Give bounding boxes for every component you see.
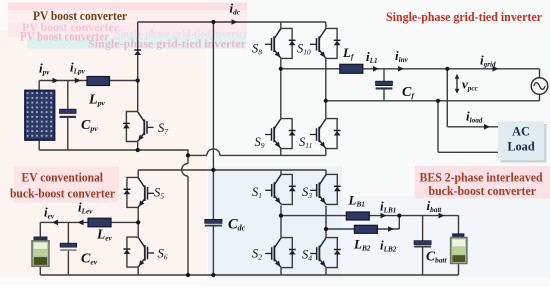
- transistor Q S4: [310, 238, 341, 268]
- transistor Q S3: [310, 174, 341, 204]
- label i_LB2: [380, 238, 397, 254]
- wire negative rail to inverter with hop: [188, 149, 326, 156]
- ghost text artifacts: [8, 3, 248, 51]
- EV title pink background: [14, 167, 119, 203]
- capacitor Cpv: [60, 109, 77, 118]
- label i_Lpv: [70, 60, 86, 76]
- wire BES battery bottom riser: [458, 263, 460, 275]
- BES battery: [451, 234, 467, 264]
- node junction (438,100.8): [436, 99, 440, 103]
- transistor Q S9: [265, 119, 296, 149]
- wire C_pv branch: [67, 81, 69, 151]
- label C_pv: [81, 118, 98, 133]
- capacitor Cf: [376, 81, 393, 89]
- label i_L1: [366, 49, 378, 65]
- capacitor Cev: [60, 243, 76, 251]
- EV battery: [32, 237, 49, 266]
- arrow i_Lpv: [75, 78, 81, 84]
- capacitor Cbatt: [414, 241, 431, 248]
- arrow i_ev: [52, 220, 58, 226]
- node junction (281,215.6): [279, 214, 283, 218]
- node junction (326,229): [324, 227, 328, 231]
- wire inverter left leg: [280, 22, 282, 155]
- svg-text:PV boost converter: PV boost converter: [33, 8, 127, 23]
- arrow i_LB1: [381, 213, 387, 219]
- svg-text:buck-boost converter: buck-boost converter: [10, 187, 115, 201]
- capacitor Cdc: [205, 219, 222, 226]
- label v_pcc: [462, 77, 479, 93]
- label S2: [252, 247, 262, 262]
- wire BES leg 2: [325, 170, 327, 275]
- node junction (213.4,275): [211, 273, 215, 277]
- label i_dc: [230, 1, 241, 17]
- voltage vpcc arrow: [455, 74, 460, 94]
- arrow i_pv: [53, 78, 59, 84]
- transistor Q S10: [310, 28, 341, 58]
- title BES 2-phase interleaved buck-boost converter: [420, 171, 543, 198]
- wire BES phase2 rail: [326, 216, 399, 229]
- wire C_batt branch: [422, 216, 424, 275]
- BES title pink background: [415, 166, 550, 199]
- svg-text:buck-boost converter: buck-boost converter: [429, 184, 537, 198]
- label i_grid: [480, 53, 496, 69]
- label i_batt: [427, 198, 443, 214]
- wire i_load branch: [447, 69, 498, 127]
- label C_f: [402, 85, 415, 100]
- node junction (399.3,215.6): [397, 214, 401, 218]
- wire DC link vertical: [212, 22, 214, 275]
- transistor Q S11: [310, 119, 341, 149]
- wire C_f branch: [383, 69, 385, 101]
- transistor Q S2: [265, 238, 296, 268]
- svg-text:EV conventional: EV conventional: [22, 171, 104, 185]
- wire PV top rail: [39, 81, 138, 92]
- arrow i_L1: [373, 66, 379, 72]
- label S8: [252, 42, 262, 57]
- label S1: [252, 185, 262, 200]
- title Single-phase grid-tied inverter: [386, 9, 542, 24]
- label L_f: [342, 45, 354, 61]
- inductor LB1: [346, 212, 369, 220]
- transistor Q S1: [265, 174, 296, 204]
- inductor Lpv: [87, 77, 110, 86]
- arrow i_load: [484, 124, 490, 130]
- wire inverter output: [281, 69, 540, 78]
- wire EV mid rail: [40, 222, 138, 237]
- wire load return branch: [438, 101, 498, 153]
- node junction (325.8,100.8): [324, 99, 328, 103]
- AC load shadow: [501, 124, 547, 163]
- node junction (138.2,222.4): [136, 220, 140, 224]
- label S5: [154, 186, 164, 201]
- label L_B2: [353, 237, 371, 253]
- wire BES leg 1: [280, 170, 282, 275]
- wire top DC bus: [138, 21, 326, 23]
- svg-text:Single-phase grid-tied inverte: Single-phase grid-tied inverter: [386, 9, 542, 24]
- wire S7 leg: [137, 81, 139, 151]
- label i_pv: [39, 61, 50, 77]
- label S3: [302, 185, 312, 200]
- label i_Lev: [78, 200, 93, 216]
- arrow i_batt: [439, 213, 445, 219]
- diode D boost: [134, 50, 141, 55]
- wire negative rail down with hop over EV rail: [182, 155, 188, 275]
- label i_LB1: [380, 199, 396, 215]
- transistor Q S6: [124, 237, 155, 267]
- AC source: [531, 78, 548, 95]
- title PV boost converter: [33, 8, 127, 23]
- label S11: [299, 135, 312, 150]
- label i_load: [466, 109, 483, 125]
- arrow i_Lev: [78, 220, 84, 226]
- wire PV panel bottom riser: [38, 139, 40, 150]
- label L_ev: [96, 227, 113, 243]
- inductor Lev: [88, 218, 111, 227]
- arrow i_inv: [398, 66, 404, 72]
- arrow i_LB2: [388, 226, 394, 232]
- label S6: [158, 247, 168, 262]
- wire EV battery bottom riser: [39, 266, 41, 275]
- wire BES phase1 rail: [281, 216, 459, 234]
- label S4: [302, 248, 312, 263]
- label S9: [255, 135, 265, 150]
- AC load box: [498, 122, 544, 161]
- PV panel: [25, 91, 55, 141]
- inductor Lf: [340, 64, 363, 73]
- node junction (447.3,68.8): [445, 67, 449, 71]
- wire boost diode branch: [137, 22, 139, 81]
- arrow i_grid: [493, 66, 499, 72]
- svg-text:AC: AC: [512, 125, 530, 139]
- label L_B1: [348, 193, 365, 209]
- transistor Q S7: [123, 112, 154, 142]
- label i_inv: [395, 48, 409, 64]
- label C_batt: [426, 249, 447, 265]
- label L_pv: [88, 93, 105, 108]
- arrow i_dc: [232, 19, 238, 25]
- wire PV negative rail W1: [39, 149, 188, 155]
- node junction (213.4,22): [211, 20, 215, 24]
- wire EV leg: [137, 170, 139, 275]
- node junction (188,155.4): [186, 153, 190, 157]
- transistor Q S8: [265, 28, 296, 58]
- label S10: [297, 42, 311, 57]
- wire C_ev branch: [67, 222, 69, 275]
- wire inverter right leg: [325, 22, 327, 155]
- wire EV-BES positive rail W2: [138, 169, 326, 171]
- node junction (188,275): [186, 273, 190, 277]
- svg-text:Load: Load: [507, 140, 534, 154]
- node junction (280.8,68.8): [279, 67, 283, 71]
- svg-text:BES 2-phase interleaved: BES 2-phase interleaved: [420, 171, 543, 185]
- node junction (213.4,170): [211, 168, 215, 172]
- inductor LB2: [354, 225, 377, 233]
- title EV conventional buck-boost converter: [10, 171, 115, 201]
- node junction (137.7,150): [136, 148, 140, 152]
- label C_dc: [228, 217, 246, 233]
- transistor Q S5: [124, 177, 155, 207]
- label i_ev: [44, 205, 55, 221]
- wire inverter return: [326, 94, 540, 101]
- svg-text:Single-phase grid-tied inverte: Single-phase grid-tied inverter: [88, 37, 247, 51]
- wire bottom bus: [40, 274, 458, 276]
- node junction (137.7,80.5): [136, 78, 140, 82]
- label S7: [158, 121, 168, 136]
- label C_ev: [81, 252, 98, 267]
